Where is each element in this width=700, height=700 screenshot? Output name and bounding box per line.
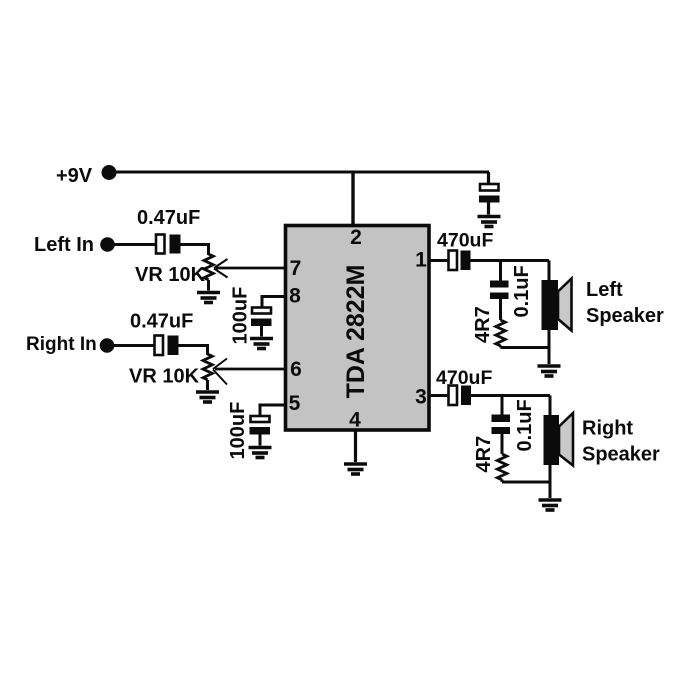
svg-text:VR 10K: VR 10K <box>135 264 206 286</box>
pin 2 label <box>350 226 362 249</box>
ground at VR1 <box>197 293 220 303</box>
capacitor C5 <box>449 251 471 271</box>
pin 7 label <box>290 257 302 280</box>
capacitor C3 value 100uF label <box>230 287 252 345</box>
ground at C3 <box>250 339 273 349</box>
wire junction to C9 <box>501 396 504 416</box>
svg-text:Left In: Left In <box>34 234 94 256</box>
ground at left speaker <box>538 366 561 376</box>
ground at VR2 <box>196 392 219 402</box>
svg-text:VR 10K: VR 10K <box>129 366 200 388</box>
potentiometer VR2 label VR 10K <box>129 366 200 388</box>
wire pin 5 to C4 <box>259 404 287 417</box>
op-amp U1 TDA 2822M body <box>286 226 430 431</box>
speaker LS2 right <box>544 396 574 499</box>
wire Left In to C1 <box>107 243 156 246</box>
op-amp U1 label TDA 2822M <box>342 265 370 399</box>
wire C5 to left speaker <box>471 259 550 262</box>
pin 4 label <box>349 409 361 432</box>
svg-text:0.47uF: 0.47uF <box>130 311 193 333</box>
svg-text:0.1uF: 0.1uF <box>514 399 536 451</box>
resistor R2 <box>497 454 507 482</box>
pin 6 label <box>290 358 302 381</box>
svg-text:8: 8 <box>289 285 301 308</box>
capacitor C6 <box>490 281 509 321</box>
wire VR2 wiper to pin 6 <box>215 368 286 371</box>
pin 1 label <box>415 249 427 272</box>
speaker LS1 left <box>542 261 572 365</box>
wire +9V rail <box>109 171 489 174</box>
wire R2 to right speaker ground <box>502 481 550 484</box>
capacitor C1 value 0.47uF label <box>137 207 200 229</box>
resistor R1 value 4R7 label <box>472 306 494 343</box>
wire pin 3 to C8 <box>429 394 449 397</box>
resistor R1 <box>496 320 506 348</box>
svg-text:2: 2 <box>350 226 362 249</box>
ground at supply decoupling cap <box>478 217 501 227</box>
svg-text:0.47uF: 0.47uF <box>137 207 200 229</box>
potentiometer VR1 label VR 10K <box>135 264 206 286</box>
capacitor C7 supply decoupling <box>479 172 500 215</box>
svg-text:100uF: 100uF <box>227 402 249 460</box>
wire C2 to VR2 <box>179 344 210 355</box>
capacitor C8 value 470uF label <box>436 367 492 389</box>
wire C1 to VR1 <box>181 243 211 255</box>
svg-text:Speaker: Speaker <box>586 305 664 327</box>
wire C8 to right speaker <box>471 394 550 397</box>
wire junction to C6 <box>499 261 502 282</box>
svg-text:470uF: 470uF <box>437 230 493 252</box>
capacitor C9 <box>492 415 511 455</box>
ground at right speaker <box>539 500 562 510</box>
wire pin 1 to C5 <box>429 259 449 262</box>
wire pin 8 to C3 <box>261 295 287 308</box>
svg-text:TDA 2822M: TDA 2822M <box>342 265 370 399</box>
node Left In label <box>34 234 94 256</box>
node Right Speaker label <box>582 418 660 466</box>
svg-text:5: 5 <box>289 392 301 415</box>
wire VR2 bottom to ground <box>206 380 209 390</box>
svg-text:4: 4 <box>349 409 361 432</box>
capacitor C9 value 0.1uF label <box>514 399 536 451</box>
node +9V terminal dot <box>102 165 117 180</box>
wire pin 4 to ground <box>354 430 357 462</box>
svg-text:3: 3 <box>415 386 427 409</box>
capacitor C4 <box>250 416 271 446</box>
node +9V label <box>56 165 93 187</box>
capacitor C3 <box>251 308 272 337</box>
svg-text:0.1uF: 0.1uF <box>511 265 533 317</box>
ground at pin 4 <box>344 464 367 474</box>
wire +9V rail to pin 2 <box>351 172 354 225</box>
node Right In terminal dot <box>100 338 115 353</box>
svg-text:Left: Left <box>586 279 623 301</box>
node Left In terminal dot <box>100 237 115 252</box>
svg-text:1: 1 <box>415 249 427 272</box>
svg-text:+9V: +9V <box>56 165 93 187</box>
capacitor C4 value 100uF label <box>227 402 249 460</box>
svg-text:7: 7 <box>290 257 302 280</box>
pin 8 label <box>289 285 301 308</box>
potentiometer VR2 <box>203 354 227 385</box>
wire VR1 wiper to pin 7 <box>216 267 286 270</box>
node Right In label <box>26 334 97 355</box>
svg-text:4R7: 4R7 <box>473 436 495 473</box>
node Left Speaker label <box>586 279 664 327</box>
pin 3 label <box>415 386 427 409</box>
wire R1 to left speaker ground <box>501 346 550 349</box>
resistor R2 value 4R7 label <box>473 436 495 473</box>
capacitor C8 <box>449 386 472 406</box>
capacitor C2 <box>155 336 179 356</box>
wire VR1 bottom to ground <box>207 280 210 291</box>
potentiometer VR1 <box>204 254 228 280</box>
svg-text:100uF: 100uF <box>230 287 252 345</box>
svg-text:Speaker: Speaker <box>582 444 660 466</box>
capacitor C1 <box>156 235 181 254</box>
pin 5 label <box>289 392 301 415</box>
svg-text:Right: Right <box>582 418 633 440</box>
capacitor C5 value 470uF label <box>437 230 493 252</box>
svg-text:6: 6 <box>290 358 302 381</box>
capacitor C2 value 0.47uF label <box>130 311 193 333</box>
svg-text:4R7: 4R7 <box>472 306 494 343</box>
ground at C4 <box>249 448 272 458</box>
svg-text:Right In: Right In <box>26 334 97 355</box>
capacitor C6 value 0.1uF label <box>511 265 533 317</box>
wire Right In to C2 <box>107 344 155 347</box>
